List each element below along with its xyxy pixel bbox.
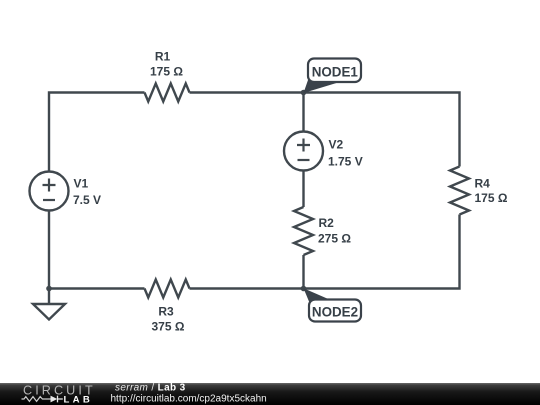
svg-text:R4: R4 xyxy=(475,177,491,191)
svg-text:V1: V1 xyxy=(74,177,89,191)
wire: R2 down to NODE2 xyxy=(302,255,304,289)
wire: V2 to R2 xyxy=(302,171,304,208)
ground stem xyxy=(48,289,50,305)
logo diode xyxy=(51,396,58,403)
svg-text:1.75 V: 1.75 V xyxy=(328,155,363,169)
wire: V1 minus down to bottom-left junction xyxy=(48,211,50,289)
wire: left top (V1+ up and across to R1) xyxy=(49,93,145,172)
wire: R1 to node NODE1 xyxy=(190,91,304,93)
svg-text:serram / Lab 3: serram / Lab 3 xyxy=(115,383,186,394)
voltage source V2 xyxy=(284,132,323,171)
ground symbol xyxy=(33,304,65,320)
svg-text:R2: R2 xyxy=(319,216,335,230)
node label NODE1 tail xyxy=(304,80,344,93)
resistor R4 xyxy=(450,167,469,215)
svg-text:LAB: LAB xyxy=(64,395,94,405)
resistor R3 xyxy=(145,280,190,298)
svg-text:V2: V2 xyxy=(329,138,344,152)
wire: NODE2 to R3 xyxy=(190,287,304,289)
svg-text:275 Ω: 275 Ω xyxy=(318,232,351,246)
resistor R2 xyxy=(294,207,313,255)
voltage source V1 xyxy=(30,172,69,211)
wire: NODE1 across top-right corner down to R4 xyxy=(304,93,460,167)
svg-text:175 Ω: 175 Ω xyxy=(475,191,508,205)
svg-text:R1: R1 xyxy=(155,50,171,64)
V2 plus sign xyxy=(297,139,310,152)
svg-text:R3: R3 xyxy=(158,305,174,319)
svg-text:NODE1: NODE1 xyxy=(312,64,359,79)
V1 plus sign xyxy=(43,179,56,192)
svg-text:NODE2: NODE2 xyxy=(312,305,358,320)
junction dot at NODE2 xyxy=(301,286,307,292)
resistor R1 xyxy=(145,84,190,102)
svg-text:http://circuitlab.com/cp2a9tx5: http://circuitlab.com/cp2a9tx5ckahn xyxy=(111,394,267,405)
svg-text:7.5 V: 7.5 V xyxy=(73,193,101,207)
node label NODE2 tail xyxy=(304,288,335,301)
V1 minus sign xyxy=(43,199,55,201)
wire: R3 to bottom-left junction xyxy=(49,287,145,289)
junction dot at NODE1 xyxy=(301,90,307,96)
junction dot at ground xyxy=(46,286,52,292)
node label NODE2 box xyxy=(309,300,361,322)
wire: NODE1 down to V2 xyxy=(302,93,304,132)
footer bar xyxy=(0,383,540,405)
svg-text:375 Ω: 375 Ω xyxy=(152,320,185,334)
V2 minus sign xyxy=(298,159,310,161)
logo resistor zigzag xyxy=(22,397,51,402)
wire: R4 down across bottom-right corner to NODE2 xyxy=(304,215,460,289)
svg-text:175 Ω: 175 Ω xyxy=(150,65,183,79)
node label NODE1 box xyxy=(308,59,361,83)
